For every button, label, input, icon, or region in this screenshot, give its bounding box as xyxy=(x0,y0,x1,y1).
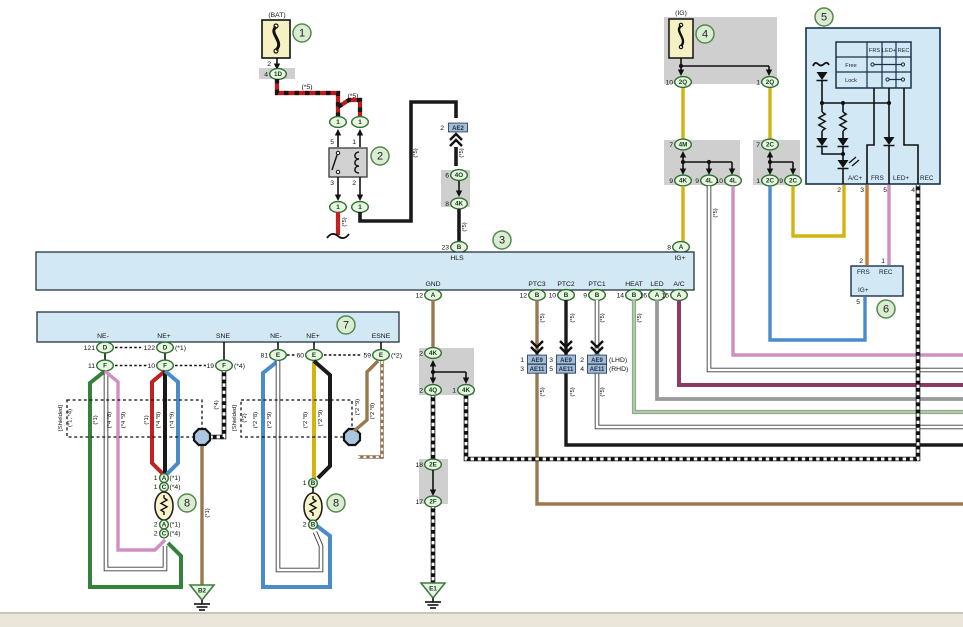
svg-text:A: A xyxy=(162,475,167,482)
chevrons into AE9 connectors xyxy=(531,341,543,353)
svg-text:2: 2 xyxy=(419,350,423,357)
arrow 4O to 4K xyxy=(458,181,460,191)
wire BLACK relay pin2 to AE2/HLS xyxy=(360,102,456,221)
svg-text:(*5): (*5) xyxy=(459,148,465,157)
svg-text:(*5): (*5) xyxy=(540,387,546,396)
connector 1 (relay pin 5 side) xyxy=(330,117,347,128)
svg-text:5: 5 xyxy=(330,139,334,146)
svg-text:1: 1 xyxy=(303,480,307,487)
svg-text:A: A xyxy=(655,292,660,299)
svg-text:B: B xyxy=(632,292,637,299)
ground E1 xyxy=(421,583,445,598)
svg-text:4K: 4K xyxy=(679,178,688,185)
key interlock box 6 xyxy=(851,266,903,296)
wire WHITE NE- right loop xyxy=(278,361,321,570)
wire PINK 10(4L) right bundle xyxy=(733,186,963,355)
svg-text:(*2 *9): (*2 *9) xyxy=(318,410,324,427)
svg-text:(*5): (*5) xyxy=(462,222,468,231)
svg-text:2: 2 xyxy=(352,180,356,187)
svg-text:SNE: SNE xyxy=(216,333,230,340)
svg-text:(*4 *8): (*4 *8) xyxy=(156,412,162,429)
svg-text:E1: E1 xyxy=(429,586,437,593)
actuator box 5 xyxy=(806,28,940,184)
wire BLACK PTC2 xyxy=(566,300,963,445)
shield ground octagon right xyxy=(344,429,360,445)
svg-text:4: 4 xyxy=(580,366,584,373)
diode left xyxy=(821,131,823,138)
svg-text:GND: GND xyxy=(425,281,440,288)
svg-text:(*2 *8): (*2 *8) xyxy=(303,412,309,429)
svg-text:(*4 *9): (*4 *9) xyxy=(121,412,127,429)
svg-text:LED+: LED+ xyxy=(882,48,896,54)
svg-text:A: A xyxy=(679,244,684,251)
wire fuse to 2Q connectors xyxy=(680,58,682,66)
svg-text:4: 4 xyxy=(911,187,915,194)
svg-text:E: E xyxy=(312,352,316,359)
svg-text:8: 8 xyxy=(184,498,190,510)
svg-text:2F: 2F xyxy=(429,499,437,506)
FRS column wire xyxy=(867,88,874,184)
svg-text:60: 60 xyxy=(296,352,304,359)
svg-text:D: D xyxy=(103,345,108,352)
svg-text:REC: REC xyxy=(879,269,893,276)
page bottom edge strip xyxy=(0,612,963,614)
svg-text:B: B xyxy=(311,522,316,529)
svg-text:(LHD): (LHD) xyxy=(609,357,627,364)
svg-text:4O: 4O xyxy=(455,172,464,179)
svg-text:AE2: AE2 xyxy=(452,126,464,132)
svg-text:2: 2 xyxy=(419,387,423,394)
wire BLUE 1(2C) to lock sensor IG+ xyxy=(770,186,865,340)
svg-text:10: 10 xyxy=(548,292,556,299)
svg-text:10: 10 xyxy=(147,363,155,370)
svg-text:7: 7 xyxy=(343,320,349,332)
svg-text:AE11: AE11 xyxy=(559,367,574,373)
svg-text:5: 5 xyxy=(549,366,553,373)
wire WHITE 9(4L) right bundle xyxy=(709,186,963,370)
svg-text:3: 3 xyxy=(860,187,864,194)
svg-text:AE11: AE11 xyxy=(530,367,545,373)
wire relay pin5 up to connector xyxy=(337,135,339,147)
wire WHITE PTC1 xyxy=(597,300,963,427)
svg-text:23: 23 xyxy=(441,244,449,251)
component number 2 xyxy=(371,147,389,165)
svg-text:(*4 *8): (*4 *8) xyxy=(107,412,113,429)
svg-text:F: F xyxy=(103,363,107,370)
svg-text:(*4): (*4) xyxy=(170,531,181,538)
junction box 4M/4K/4L gray xyxy=(664,140,740,185)
svg-text:[Shielded]: [Shielded] xyxy=(58,405,64,431)
cut squiggle on red wire xyxy=(327,234,349,238)
component number 3 xyxy=(493,231,511,249)
svg-text:1: 1 xyxy=(336,119,340,126)
svg-text:2: 2 xyxy=(440,125,444,132)
component number 6 xyxy=(877,300,895,318)
svg-text:(*2 *8): (*2 *8) xyxy=(253,412,259,429)
svg-text:1: 1 xyxy=(520,357,524,364)
REC column wire xyxy=(904,88,918,184)
svg-text:A: A xyxy=(677,292,682,299)
lock contact xyxy=(886,78,889,81)
ECM bar 7 xyxy=(37,312,399,342)
svg-text:(*4): (*4) xyxy=(234,363,245,370)
svg-text:(*5): (*5) xyxy=(570,313,576,322)
svg-text:(IG): (IG) xyxy=(675,10,687,17)
svg-text:7: 7 xyxy=(669,142,673,149)
svg-text:4M: 4M xyxy=(679,142,688,149)
svg-text:FRS: FRS xyxy=(857,269,870,276)
wire ORANGE FRS to box6 xyxy=(865,185,868,265)
svg-text:FRS: FRS xyxy=(871,175,884,182)
wire RED (*5) to other system xyxy=(336,212,340,235)
svg-text:15: 15 xyxy=(661,292,669,299)
fusible link 1 box xyxy=(262,20,290,58)
svg-text:HLS: HLS xyxy=(450,255,464,262)
svg-text:C: C xyxy=(162,531,167,538)
svg-text:2: 2 xyxy=(303,522,307,529)
shielded dashed box left xyxy=(67,400,202,437)
svg-text:E: E xyxy=(276,352,280,359)
arrows 4M branch xyxy=(682,157,684,162)
svg-text:(*5): (*5) xyxy=(600,313,606,322)
diode mid xyxy=(842,131,844,138)
svg-text:8: 8 xyxy=(333,498,339,510)
svg-text:A/C: A/C xyxy=(673,281,684,288)
svg-text:1: 1 xyxy=(154,475,158,482)
svg-text:12: 12 xyxy=(519,292,527,299)
svg-text:1: 1 xyxy=(352,139,356,146)
svg-text:Lock: Lock xyxy=(845,78,857,84)
svg-text:(*1, *4): (*1, *4) xyxy=(68,409,74,427)
svg-text:(*5): (*5) xyxy=(713,208,719,217)
component number 8 (left) xyxy=(178,494,196,512)
svg-text:5: 5 xyxy=(883,187,887,194)
svg-text:19: 19 xyxy=(206,363,214,370)
svg-text:B: B xyxy=(564,292,569,299)
svg-text:1: 1 xyxy=(452,387,456,394)
LED+ column wire + diode xyxy=(888,88,890,137)
svg-text:9: 9 xyxy=(669,178,673,185)
svg-text:PTC3: PTC3 xyxy=(528,281,546,288)
svg-text:4L: 4L xyxy=(729,178,737,185)
connector 59(E) (*2) xyxy=(324,354,361,356)
resistor R-right xyxy=(842,103,844,112)
svg-text:2: 2 xyxy=(580,357,584,364)
svg-text:(*5): (*5) xyxy=(302,84,313,91)
svg-text:(*5): (*5) xyxy=(348,93,359,100)
svg-text:5: 5 xyxy=(856,299,860,306)
svg-text:2: 2 xyxy=(154,531,158,538)
svg-text:14: 14 xyxy=(616,292,624,299)
svg-text:REC: REC xyxy=(920,175,934,182)
svg-text:(*5): (*5) xyxy=(540,313,546,322)
junction box 2C gray xyxy=(753,140,800,185)
svg-text:(BAT): (BAT) xyxy=(268,12,285,19)
svg-text:4K: 4K xyxy=(429,350,438,357)
svg-text:4: 4 xyxy=(264,71,268,78)
zener diode below wave xyxy=(817,72,828,80)
svg-text:B: B xyxy=(595,292,600,299)
svg-text:NE+: NE+ xyxy=(306,333,319,340)
component number 1 xyxy=(293,24,311,42)
svg-text:IG+: IG+ xyxy=(674,255,685,262)
wire YELLOW NE+ right xyxy=(312,361,316,479)
svg-text:(*1): (*1) xyxy=(170,475,181,482)
svg-text:(*5): (*5) xyxy=(600,387,606,396)
svg-text:12: 12 xyxy=(415,292,423,299)
wire YELLOW 2Q to 4M xyxy=(681,88,684,139)
svg-text:4K: 4K xyxy=(455,201,464,208)
svg-text:6: 6 xyxy=(445,172,449,179)
svg-text:IG+: IG+ xyxy=(858,287,869,294)
svg-text:2Q: 2Q xyxy=(766,79,775,86)
svg-text:7: 7 xyxy=(756,142,760,149)
wire 4K to ECM pin 23 xyxy=(457,209,461,241)
wire PURPLE A/C xyxy=(679,300,963,385)
svg-text:(*1): (*1) xyxy=(170,522,181,529)
wire relay pin1 up to connector xyxy=(359,135,361,147)
svg-text:17: 17 xyxy=(415,499,423,506)
wire BROWN GND to 4K xyxy=(431,300,434,348)
svg-text:(*2 *8): (*2 *8) xyxy=(370,403,376,420)
wire YELLOW 4K to ECM IG+ xyxy=(681,186,684,242)
svg-text:A: A xyxy=(162,522,167,529)
svg-text:10: 10 xyxy=(715,178,723,185)
svg-text:1: 1 xyxy=(358,119,362,126)
wire PINK LED+ to box6 REC xyxy=(887,185,890,265)
svg-text:(*4): (*4) xyxy=(170,484,181,491)
svg-text:9: 9 xyxy=(695,178,699,185)
svg-text:NE+: NE+ xyxy=(157,333,170,340)
svg-text:(*2 *9): (*2 *9) xyxy=(267,412,273,429)
svg-text:AE9: AE9 xyxy=(531,358,543,364)
shield ground octagon left xyxy=(194,429,210,445)
thermistor wave symbol xyxy=(813,63,829,66)
wire fuse to connector 1D xyxy=(276,58,278,64)
wire SAGE HEAT xyxy=(634,300,963,412)
wire YELLOW 2Q to 2C xyxy=(768,88,771,139)
wire AE2 to 4O xyxy=(454,147,458,166)
wire BLUE NE+ xyxy=(165,371,178,474)
LED indicator diode xyxy=(842,154,844,160)
svg-text:A: A xyxy=(431,292,436,299)
svg-text:(*1): (*1) xyxy=(93,415,99,424)
svg-text:ESNE: ESNE xyxy=(372,333,391,340)
svg-text:B: B xyxy=(311,480,316,487)
svg-text:NE-: NE- xyxy=(270,333,282,340)
crank sensor 8 left xyxy=(163,491,165,494)
svg-text:(*1): (*1) xyxy=(175,345,186,352)
svg-text:C: C xyxy=(162,484,167,491)
svg-text:LED+: LED+ xyxy=(893,175,909,182)
connector 10(F) xyxy=(115,365,147,367)
svg-text:2C: 2C xyxy=(766,178,775,185)
svg-text:REC: REC xyxy=(898,48,910,54)
svg-text:1: 1 xyxy=(299,28,305,40)
svg-text:1: 1 xyxy=(756,79,760,86)
component number 7 xyxy=(337,316,355,334)
svg-text:A/C+: A/C+ xyxy=(848,175,863,182)
svg-text:122: 122 xyxy=(144,345,156,352)
svg-text:2Q: 2Q xyxy=(679,79,688,86)
svg-text:5: 5 xyxy=(821,12,827,24)
svg-text:1: 1 xyxy=(358,204,362,211)
wire RED NE+ xyxy=(152,371,165,474)
svg-text:AE9: AE9 xyxy=(560,358,572,364)
svg-text:NE-: NE- xyxy=(97,333,109,340)
svg-text:(*1): (*1) xyxy=(205,508,211,517)
svg-text:3: 3 xyxy=(520,366,524,373)
wire RED/BLK (*5) from 1D to relay connectors xyxy=(277,79,338,117)
svg-text:D: D xyxy=(163,345,168,352)
fuse 4 box xyxy=(669,19,693,58)
logic table xyxy=(836,42,911,88)
svg-text:[Shielded]: [Shielded] xyxy=(232,405,238,431)
svg-text:59: 59 xyxy=(363,352,371,359)
svg-text:(*4): (*4) xyxy=(214,400,220,409)
wire BROWN PTC3 xyxy=(537,300,963,504)
svg-text:2C: 2C xyxy=(766,142,775,149)
wire relay pin2 down to connector xyxy=(359,177,361,195)
ECM bar 3 xyxy=(36,252,694,290)
wire BLK/WHT 4Q to 2E xyxy=(431,396,436,459)
svg-text:3: 3 xyxy=(499,235,505,247)
wire BLUE NE- right loop xyxy=(263,361,330,587)
wire BLACK NE+ xyxy=(163,371,167,475)
svg-text:B2: B2 xyxy=(198,588,207,595)
svg-text:11: 11 xyxy=(88,363,95,370)
connector 1 (relay pin 1 side) xyxy=(352,117,369,128)
svg-text:2E: 2E xyxy=(429,462,437,469)
wire PINK NE- loop xyxy=(105,371,165,550)
component number 8 (right) xyxy=(327,494,345,512)
svg-text:(*5): (*5) xyxy=(413,148,419,157)
connector 4(1D) xyxy=(259,68,295,79)
shielded dashed box right xyxy=(241,400,352,437)
svg-text:16: 16 xyxy=(639,292,647,299)
connector 122(D) (*1) xyxy=(115,347,141,349)
resistor R-left xyxy=(821,103,823,112)
svg-text:10: 10 xyxy=(665,79,673,86)
stub NE- left xyxy=(104,342,106,345)
svg-text:(RHD): (RHD) xyxy=(609,366,628,373)
internal rail xyxy=(822,102,889,104)
svg-text:1: 1 xyxy=(756,178,760,185)
component number 4 xyxy=(696,25,714,43)
svg-text:Free: Free xyxy=(845,63,857,69)
svg-text:LED: LED xyxy=(650,281,663,288)
join below diodes xyxy=(822,147,843,154)
wire BLK/WHT 2F to ground E1 xyxy=(431,507,436,583)
chevron pair into AE2 xyxy=(450,134,462,146)
svg-text:6: 6 xyxy=(883,304,889,316)
svg-text:81: 81 xyxy=(260,352,268,359)
svg-text:2: 2 xyxy=(154,522,158,529)
svg-text:1: 1 xyxy=(881,258,885,265)
svg-text:(*4 *9): (*4 *9) xyxy=(170,412,176,429)
svg-text:(*5): (*5) xyxy=(342,217,348,226)
component number 5 xyxy=(815,8,833,26)
svg-text:AE11: AE11 xyxy=(590,367,605,373)
svg-text:4Q: 4Q xyxy=(429,387,438,394)
svg-text:(*5): (*5) xyxy=(637,313,643,322)
svg-text:4: 4 xyxy=(702,29,708,41)
connector 19(F) (*4) xyxy=(175,365,206,367)
svg-text:18: 18 xyxy=(415,462,423,469)
svg-text:FRS: FRS xyxy=(869,48,880,54)
wire BRN/WHT ESNE to shield xyxy=(358,361,382,457)
svg-text:E: E xyxy=(379,352,383,359)
svg-text:3: 3 xyxy=(549,357,553,364)
svg-text:F: F xyxy=(163,363,167,370)
ground B2 xyxy=(190,585,214,600)
wire BLACK NE+ right xyxy=(314,361,330,478)
svg-text:1: 1 xyxy=(336,204,340,211)
wire WHITE NE- loop xyxy=(106,371,165,569)
svg-text:(*2 *9): (*2 *9) xyxy=(355,399,361,416)
svg-text:2: 2 xyxy=(837,187,841,194)
wire relay pin3 down to connector xyxy=(337,177,339,195)
connector 1 (below pin 2) xyxy=(352,202,369,213)
svg-text:9: 9 xyxy=(779,178,783,185)
svg-text:1D: 1D xyxy=(274,71,283,78)
svg-text:HEAT: HEAT xyxy=(625,281,643,288)
ground wire BROWN shield to B2 xyxy=(200,446,203,585)
junction box 4O/4K gray xyxy=(441,170,470,207)
wire YELLOW 9(2C) to lock sensor A/C+ xyxy=(793,185,844,236)
wire GREEN NE- loop xyxy=(90,371,181,587)
svg-text:9: 9 xyxy=(583,292,587,299)
connector 1 (below pin 3) xyxy=(330,202,347,213)
free contact xyxy=(871,63,874,66)
gray junction block (IG fuse) xyxy=(664,17,777,84)
svg-text:(*1): (*1) xyxy=(144,415,150,424)
svg-text:AE9: AE9 xyxy=(591,358,603,364)
svg-text:B: B xyxy=(457,244,462,251)
relay 2 box xyxy=(329,148,367,177)
junction box 4K/4Q gray xyxy=(419,348,474,395)
crank sensor 8 right xyxy=(312,487,314,493)
svg-text:3: 3 xyxy=(330,180,334,187)
svg-text:121: 121 xyxy=(84,345,96,352)
wire BLK/WHT REC to 1(4K) xyxy=(466,185,918,459)
junction box 2E/2F gray xyxy=(419,459,448,504)
svg-text:2: 2 xyxy=(859,258,863,265)
wire BLK/WHT SNE to shield xyxy=(211,371,224,437)
svg-text:2: 2 xyxy=(377,151,383,163)
svg-text:2: 2 xyxy=(267,61,271,68)
connector 60(E) xyxy=(287,354,295,356)
svg-text:8: 8 xyxy=(667,244,671,251)
svg-text:1: 1 xyxy=(154,484,158,491)
wire BROWN ESNE to shield xyxy=(354,361,378,431)
svg-text:(*2): (*2) xyxy=(242,413,248,422)
svg-text:8: 8 xyxy=(445,201,449,208)
svg-text:4L: 4L xyxy=(705,178,713,185)
svg-text:B: B xyxy=(535,292,540,299)
svg-text:(*2): (*2) xyxy=(391,353,402,360)
svg-text:PTC2: PTC2 xyxy=(557,281,575,288)
svg-text:2C: 2C xyxy=(789,178,798,185)
svg-text:4K: 4K xyxy=(462,387,471,394)
svg-text:F: F xyxy=(222,363,226,370)
wire GRAY LED xyxy=(657,300,963,399)
svg-text:PTC1: PTC1 xyxy=(588,281,606,288)
svg-text:(*5): (*5) xyxy=(570,387,576,396)
